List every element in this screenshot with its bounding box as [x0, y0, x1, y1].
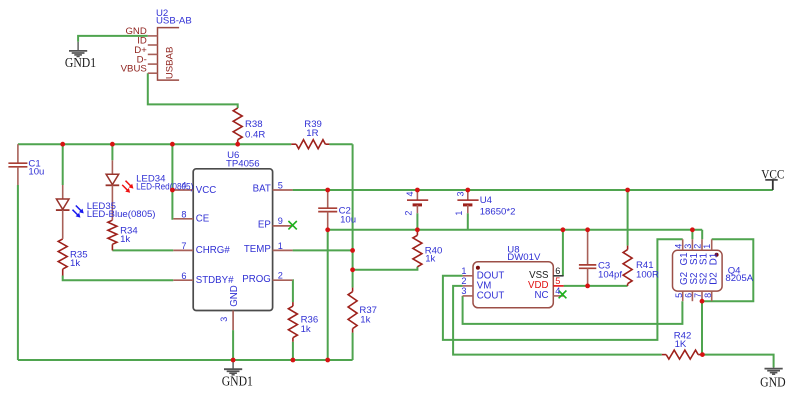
svg-text:2: 2: [403, 211, 413, 216]
svg-text:6: 6: [684, 293, 694, 298]
svg-text:8205A: 8205A: [725, 273, 753, 284]
svg-text:8: 8: [703, 293, 713, 298]
svg-text:1: 1: [702, 244, 712, 249]
svg-text:R38: R38: [245, 119, 263, 130]
svg-text:GND: GND: [760, 376, 786, 391]
svg-text:TP4056: TP4056: [226, 159, 260, 170]
svg-text:CHRG#: CHRG#: [196, 245, 231, 256]
svg-text:3: 3: [461, 286, 466, 296]
svg-text:4: 4: [405, 191, 415, 196]
svg-text:TEMP: TEMP: [244, 244, 271, 255]
svg-text:LED-Blue(0805): LED-Blue(0805): [87, 209, 156, 220]
svg-text:8: 8: [181, 209, 186, 219]
svg-text:1k: 1k: [425, 253, 435, 264]
svg-text:PROG: PROG: [242, 274, 271, 285]
svg-text:USB-AB: USB-AB: [156, 16, 192, 27]
svg-text:VCC: VCC: [761, 167, 784, 182]
svg-text:4: 4: [673, 244, 683, 249]
svg-text:GND1: GND1: [222, 375, 253, 390]
svg-text:10u: 10u: [28, 167, 44, 178]
svg-text:1: 1: [461, 266, 466, 276]
svg-text:2: 2: [278, 271, 283, 281]
svg-text:1: 1: [278, 241, 283, 251]
svg-text:9: 9: [278, 216, 283, 226]
svg-text:DW01V: DW01V: [507, 252, 541, 263]
svg-text:COUT: COUT: [477, 291, 505, 302]
svg-text:3: 3: [219, 317, 229, 322]
svg-text:4: 4: [555, 286, 560, 296]
svg-text:100R: 100R: [636, 270, 659, 281]
svg-text:1: 1: [454, 211, 464, 216]
svg-text:2: 2: [693, 244, 703, 249]
svg-text:D2: D2: [708, 272, 719, 285]
svg-text:5: 5: [674, 293, 684, 298]
svg-text:10u: 10u: [340, 215, 356, 226]
svg-text:104pf: 104pf: [598, 270, 622, 281]
svg-text:NC: NC: [535, 290, 549, 301]
svg-text:GND: GND: [229, 285, 240, 307]
svg-text:2: 2: [461, 276, 466, 286]
svg-text:D1: D1: [708, 253, 719, 266]
svg-text:1R: 1R: [306, 128, 318, 139]
svg-text:VBUS: VBUS: [121, 64, 147, 75]
svg-text:6: 6: [181, 271, 186, 281]
svg-text:5: 5: [555, 276, 560, 286]
svg-text:1k: 1k: [120, 234, 130, 245]
svg-text:7: 7: [693, 293, 703, 298]
svg-text:1k: 1k: [301, 324, 311, 335]
svg-text:LED-Red(0805): LED-Red(0805): [136, 181, 193, 192]
svg-text:6: 6: [555, 266, 560, 276]
svg-text:3: 3: [683, 244, 693, 249]
svg-text:7: 7: [181, 241, 186, 251]
svg-text:STDBY#: STDBY#: [196, 275, 234, 286]
svg-text:5: 5: [278, 180, 283, 190]
svg-text:1k: 1k: [360, 315, 370, 326]
svg-text:U4: U4: [480, 195, 493, 206]
svg-text:CE: CE: [196, 214, 210, 225]
svg-text:18650*2: 18650*2: [480, 207, 516, 218]
svg-text:BAT: BAT: [253, 184, 271, 195]
svg-text:0.4R: 0.4R: [245, 130, 265, 141]
svg-text:3: 3: [456, 191, 466, 196]
svg-text:1K: 1K: [675, 339, 687, 350]
svg-text:1k: 1k: [70, 258, 80, 269]
svg-text:GND1: GND1: [65, 56, 96, 71]
svg-text:EP: EP: [258, 220, 271, 231]
svg-text:USBAB: USBAB: [165, 47, 176, 80]
svg-text:VCC: VCC: [196, 185, 216, 196]
